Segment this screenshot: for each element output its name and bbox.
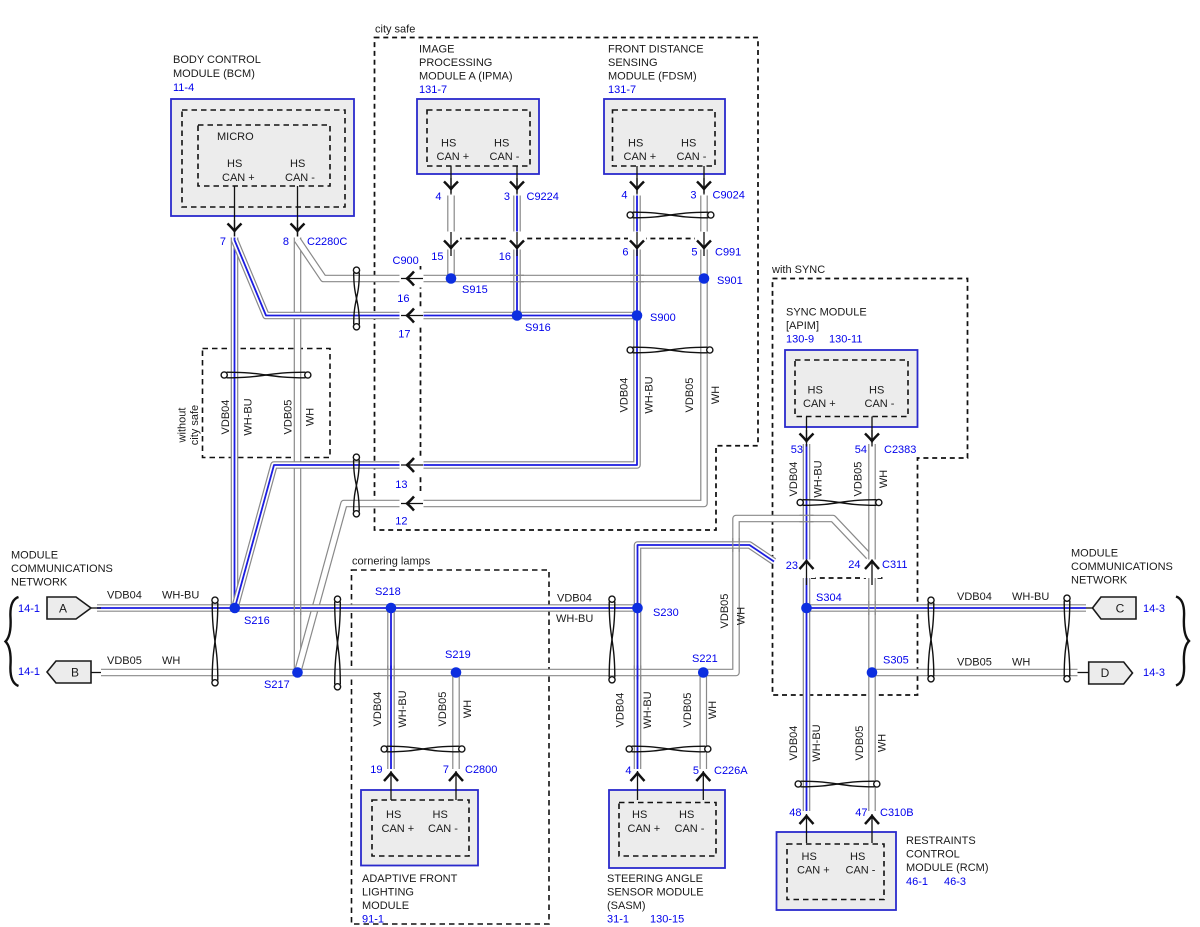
- svg-text:VDB04: VDB04: [957, 591, 992, 603]
- wire FDSM pin4 through S900 and C900-13 to S216: [235, 196, 637, 609]
- module IPMA box: [417, 99, 539, 174]
- splice S230: [632, 603, 643, 614]
- wire B VDB05 WH bus from connector B through S217 S219 S221 to C311-24: [101, 519, 869, 673]
- svg-text:A: A: [59, 602, 67, 616]
- svg-text:13: 13: [395, 479, 407, 491]
- svg-text:VDB05: VDB05: [684, 378, 696, 413]
- twisted pair symbol C900 16/17: [353, 267, 359, 330]
- svg-text:11-4: 11-4: [173, 82, 194, 94]
- svg-text:VDB04: VDB04: [220, 400, 232, 435]
- svg-text:WH-BU: WH-BU: [243, 398, 255, 435]
- svg-text:S230: S230: [653, 607, 679, 619]
- svg-text:B: B: [71, 666, 79, 680]
- without city safe boundary box: [203, 349, 331, 458]
- connector C9224 pin4 arrow: [444, 178, 458, 195]
- with SYNC boundary (dashed): [773, 279, 968, 696]
- svg-text:6: 6: [622, 247, 628, 259]
- connector D stub wire: [1078, 672, 1089, 674]
- wire crossing patch hook horizontal under SYNC pin53 wire: [800, 515, 814, 521]
- wire crossing patch wire16 under IPMA pin3 wire: [510, 275, 524, 281]
- svg-text:VDB05: VDB05: [682, 693, 694, 728]
- svg-text:4: 4: [621, 190, 627, 202]
- svg-text:S218: S218: [375, 586, 401, 598]
- svg-text:SYNC MODULE: SYNC MODULE: [786, 307, 867, 319]
- svg-text:VDB05: VDB05: [719, 594, 731, 629]
- IPMA inner dashed box: [427, 110, 530, 166]
- svg-text:HS: HS: [850, 851, 865, 863]
- twisted pair symbol bus mid: [609, 596, 615, 683]
- connector C2280C pin7 arrow: [228, 220, 242, 237]
- svg-text:CAN -: CAN -: [490, 151, 520, 163]
- twisted pair symbol FDSM pins: [627, 212, 714, 218]
- svg-text:15: 15: [431, 251, 443, 263]
- FDSM inner dashed box: [613, 110, 716, 166]
- svg-text:CAN +: CAN +: [803, 398, 836, 410]
- svg-text:4: 4: [625, 765, 631, 777]
- AFLM inner dashed box: [372, 800, 469, 856]
- svg-text:VDB04: VDB04: [107, 590, 142, 602]
- connector C2800 pin19 arrow: [384, 771, 398, 800]
- SYNC pin53 stem: [806, 417, 808, 444]
- svg-text:14-1: 14-1: [18, 666, 40, 678]
- connector C900 pin13 arrow: [400, 456, 424, 474]
- module RCM box: [777, 832, 897, 910]
- svg-text:BODY CONTROL: BODY CONTROL: [173, 54, 261, 66]
- svg-text:23: 23: [786, 560, 798, 572]
- svg-text:S216: S216: [244, 615, 270, 627]
- splice S218: [386, 603, 397, 614]
- svg-text:12: 12: [395, 516, 407, 528]
- svg-text:C2280C: C2280C: [307, 236, 347, 248]
- svg-text:MODULE: MODULE: [362, 900, 409, 912]
- twisted pair symbol SASM pins: [626, 746, 711, 752]
- connector tag C: [1093, 597, 1137, 619]
- svg-text:HS: HS: [869, 385, 884, 397]
- connector C310B pin48 arrow: [800, 814, 814, 843]
- svg-text:HS: HS: [632, 809, 647, 821]
- svg-text:COMMUNICATIONS: COMMUNICATIONS: [11, 563, 113, 575]
- wire crossing patch wire16 under FDSM pin4 wire: [630, 275, 644, 281]
- RCM inner dashed box: [787, 844, 884, 900]
- twisted pair symbol bus right 1: [928, 597, 934, 682]
- svg-text:CAN -: CAN -: [865, 398, 895, 410]
- twisted pair symbol S900/S901 verticals: [627, 347, 713, 353]
- wire S230 to SASM pin4: [634, 608, 642, 769]
- connector C2280C pin8 arrow: [291, 220, 305, 237]
- svg-text:PROCESSING: PROCESSING: [419, 57, 492, 69]
- svg-text:COMMUNICATIONS: COMMUNICATIONS: [1071, 561, 1173, 573]
- svg-text:C9224: C9224: [527, 191, 559, 203]
- svg-text:14-1: 14-1: [18, 603, 40, 615]
- wire SYNC pin54 through C311-24 and S305 to RCM pin47: [868, 444, 876, 811]
- svg-text:HS: HS: [494, 138, 509, 150]
- svg-text:WH: WH: [877, 734, 889, 752]
- wire BCM pin8 VDB05 WH vertical to S217: [294, 238, 302, 673]
- svg-text:RESTRAINTS: RESTRAINTS: [906, 835, 976, 847]
- twisted pair symbol bus right 2: [1064, 595, 1070, 682]
- svg-text:31-1: 31-1: [607, 914, 629, 926]
- connector C226A pin4 arrow: [631, 771, 645, 800]
- svg-text:S305: S305: [883, 655, 909, 667]
- svg-text:MODULE A (IPMA): MODULE A (IPMA): [419, 71, 513, 83]
- svg-text:53: 53: [791, 444, 803, 456]
- svg-text:S901: S901: [717, 275, 743, 287]
- C311 inline connector boundary (dashed): [811, 577, 886, 579]
- svg-text:SENSING: SENSING: [608, 57, 658, 69]
- connector C9024 pin3 arrow: [697, 178, 711, 195]
- svg-text:VDB05: VDB05: [854, 726, 866, 761]
- svg-text:S915: S915: [462, 284, 488, 296]
- twisted pair symbol RCM pins: [795, 781, 880, 787]
- connector C900 pin16 left arrow: [400, 270, 424, 288]
- twisted pair symbol SYNC pins: [797, 499, 882, 505]
- connector C900 pin15 arrow: [442, 232, 460, 257]
- BCM inner dashed box: [182, 110, 345, 207]
- svg-text:WH-BU: WH-BU: [642, 691, 654, 728]
- svg-text:3: 3: [504, 191, 510, 203]
- svg-text:CAN -: CAN -: [675, 823, 705, 835]
- twisted pair symbol AFLM pins: [381, 746, 465, 752]
- SASM inner dashed box: [619, 803, 716, 857]
- svg-text:14-3: 14-3: [1143, 603, 1165, 615]
- FDSM pin4 stem: [636, 166, 638, 193]
- svg-text:VDB04: VDB04: [372, 692, 384, 727]
- continuation brace left: [6, 597, 19, 686]
- svg-text:CAN -: CAN -: [677, 151, 707, 163]
- connector A stub wire: [91, 607, 101, 609]
- svg-text:C: C: [1116, 602, 1125, 616]
- svg-text:17: 17: [398, 329, 410, 341]
- svg-text:C2800: C2800: [465, 764, 497, 776]
- splice S221: [698, 667, 709, 678]
- svg-text:131-7: 131-7: [608, 84, 636, 96]
- svg-text:city safe: city safe: [375, 24, 415, 36]
- wire BCM pin8 branch to C900-16 and S901: [298, 240, 705, 279]
- twisted pair symbol C900 13/12: [353, 454, 359, 517]
- svg-text:VDB04: VDB04: [788, 726, 800, 761]
- splice S916: [512, 310, 523, 321]
- connector C9024 pin4 arrow: [630, 178, 644, 195]
- svg-text:MODULE (FDSM): MODULE (FDSM): [608, 71, 697, 83]
- svg-text:HS: HS: [386, 809, 401, 821]
- svg-text:131-7: 131-7: [419, 84, 447, 96]
- connector C311 pin23 arrow: [798, 560, 816, 586]
- module AFLM box: [361, 790, 478, 866]
- svg-text:WH-BU: WH-BU: [162, 590, 199, 602]
- svg-text:VDB05: VDB05: [957, 657, 992, 669]
- wire crossing patch SASM wire over bus B: [634, 666, 640, 680]
- connector C9224 pin3 arrow: [510, 178, 524, 195]
- svg-text:S217: S217: [264, 679, 290, 691]
- svg-text:[APIM]: [APIM]: [786, 320, 819, 332]
- svg-text:5: 5: [693, 765, 699, 777]
- svg-text:HS: HS: [433, 809, 448, 821]
- connector C310B pin47 arrow: [865, 814, 879, 843]
- svg-text:7: 7: [443, 764, 449, 776]
- svg-text:CAN -: CAN -: [428, 823, 458, 835]
- connector C311 pin24 arrow: [863, 560, 881, 586]
- module SASM box: [609, 790, 725, 868]
- SYNC pin54 stem: [871, 417, 873, 444]
- svg-text:14-3: 14-3: [1143, 667, 1165, 679]
- svg-text:D: D: [1101, 666, 1110, 680]
- connector tag B: [47, 661, 91, 683]
- wire A VDB04 WH-BU bus from connector A through S216 S218 to S230: [97, 604, 638, 612]
- svg-text:with SYNC: with SYNC: [771, 264, 825, 276]
- svg-text:ADAPTIVE FRONT: ADAPTIVE FRONT: [362, 873, 458, 885]
- wire S230 branch to C311-23: [638, 545, 775, 608]
- svg-text:54: 54: [855, 444, 867, 456]
- svg-text:C226A: C226A: [714, 765, 748, 777]
- svg-text:CAN -: CAN -: [846, 865, 876, 877]
- twisted pair symbol BCM verticals: [221, 372, 311, 378]
- FDSM pin3 stem: [703, 166, 705, 193]
- splice S900: [632, 310, 643, 321]
- SYNC inner dashed box: [795, 360, 908, 417]
- svg-text:VDB04: VDB04: [788, 462, 800, 497]
- city safe harness boundary (dashed): [375, 38, 759, 531]
- connector C900 pin16 arrow: [508, 232, 526, 257]
- svg-text:WH: WH: [305, 408, 317, 426]
- connector tag D: [1089, 662, 1133, 684]
- svg-text:C991: C991: [715, 247, 741, 259]
- continuation brace right: [1176, 597, 1189, 686]
- svg-text:VDB05: VDB05: [853, 462, 865, 497]
- svg-text:HS: HS: [802, 851, 817, 863]
- connector C2383 pin54 arrow: [865, 430, 879, 447]
- BCM pin8 stem: [297, 186, 299, 237]
- wire crossing patch S217-wire over bus A: [294, 601, 300, 615]
- connector C226A pin5 arrow: [696, 771, 710, 800]
- svg-text:(SASM): (SASM): [607, 900, 646, 912]
- svg-text:WH: WH: [707, 701, 719, 719]
- svg-text:IMAGE: IMAGE: [419, 44, 454, 56]
- wire crossing patch S305-wire over bus A right: [869, 601, 875, 615]
- wire BCM pin7 VDB04 WH-BU vertical to S216: [231, 238, 239, 609]
- svg-text:16: 16: [499, 251, 511, 263]
- svg-text:WH: WH: [710, 386, 722, 404]
- wire S218 to AFLM pin19: [387, 608, 395, 769]
- svg-text:MODULE (RCM): MODULE (RCM): [906, 862, 989, 874]
- wire crossing patch AFLM wire over bus B: [388, 666, 394, 680]
- svg-text:WH-BU: WH-BU: [556, 613, 593, 625]
- module BCM box: [171, 99, 354, 216]
- svg-text:HS: HS: [679, 809, 694, 821]
- svg-text:SENSOR MODULE: SENSOR MODULE: [607, 887, 704, 899]
- svg-text:HS: HS: [441, 138, 456, 150]
- IPMA pin3 stem: [516, 166, 518, 193]
- splice S305: [867, 667, 878, 678]
- svg-text:47: 47: [855, 807, 867, 819]
- svg-text:C310B: C310B: [880, 807, 914, 819]
- wire BCM pin7 branch to C900-17 and S900: [235, 240, 638, 316]
- svg-text:CAN +: CAN +: [382, 823, 415, 835]
- wire S221 to SASM pin5: [699, 673, 707, 770]
- svg-text:VDB05: VDB05: [283, 400, 295, 435]
- wire S219 to AFLM pin7: [452, 673, 460, 770]
- svg-text:MODULE: MODULE: [11, 550, 58, 562]
- svg-text:C2383: C2383: [884, 444, 916, 456]
- svg-text:WH: WH: [462, 700, 474, 718]
- twisted pair symbol bus left 1: [212, 597, 218, 686]
- connector C991 pin5 arrow: [695, 232, 713, 257]
- splice S901: [699, 273, 710, 284]
- connector B stub wire: [91, 672, 101, 674]
- svg-text:VDB04: VDB04: [615, 693, 627, 728]
- wire FDSM pin3 through S901 and C900-12 to S217: [298, 196, 705, 673]
- wire B right VDB05 WH from S305 to connector D: [872, 669, 1078, 677]
- splice S216: [230, 603, 241, 614]
- svg-text:without: without: [177, 408, 189, 444]
- svg-text:3: 3: [690, 190, 696, 202]
- svg-text:HS: HS: [808, 385, 823, 397]
- svg-text:91-1: 91-1: [362, 914, 384, 926]
- svg-text:WH: WH: [878, 470, 890, 488]
- wire SYNC pin53 through C311-23 and S304 to RCM pin48: [803, 444, 811, 811]
- svg-text:WH-BU: WH-BU: [1012, 591, 1049, 603]
- svg-text:NETWORK: NETWORK: [11, 577, 68, 589]
- svg-text:19: 19: [370, 764, 382, 776]
- svg-text:CONTROL: CONTROL: [906, 849, 960, 861]
- svg-text:VDB04: VDB04: [619, 378, 631, 413]
- svg-text:8: 8: [283, 236, 289, 248]
- svg-text:HS: HS: [227, 158, 242, 170]
- svg-text:S916: S916: [525, 322, 551, 334]
- svg-text:CAN +: CAN +: [437, 151, 470, 163]
- svg-text:WH-BU: WH-BU: [813, 460, 825, 497]
- svg-text:130-9: 130-9: [786, 334, 814, 346]
- svg-text:WH-BU: WH-BU: [644, 376, 656, 413]
- svg-text:7: 7: [220, 236, 226, 248]
- twisted pair symbol bus left 2: [334, 596, 340, 690]
- BCM pin7 stem: [234, 186, 236, 237]
- IPMA pin4 stem: [450, 166, 452, 193]
- connector C900 pin17 left arrow: [400, 307, 424, 325]
- svg-text:LIGHTING: LIGHTING: [362, 887, 414, 899]
- connector C2383 pin53 arrow: [800, 430, 814, 447]
- svg-text:WH-BU: WH-BU: [397, 690, 409, 727]
- svg-text:city safe: city safe: [189, 405, 201, 445]
- svg-text:S221: S221: [692, 653, 718, 665]
- svg-text:46-1: 46-1: [906, 876, 928, 888]
- connector C stub wire: [1086, 607, 1093, 609]
- svg-text:CAN +: CAN +: [797, 865, 830, 877]
- svg-text:MODULE (BCM): MODULE (BCM): [173, 68, 255, 80]
- svg-text:C9024: C9024: [713, 190, 745, 202]
- svg-text:HS: HS: [681, 138, 696, 150]
- wire crossing patch hook vertical over S230 branch: [733, 538, 739, 552]
- svg-text:S900: S900: [650, 312, 676, 324]
- splice S217: [292, 667, 303, 678]
- splice S219: [451, 667, 462, 678]
- svg-text:VDB05: VDB05: [107, 655, 142, 667]
- svg-text:WH: WH: [162, 655, 180, 667]
- svg-text:MICRO: MICRO: [217, 131, 254, 143]
- svg-text:130-11: 130-11: [829, 334, 862, 346]
- svg-text:S219: S219: [445, 649, 471, 661]
- svg-text:CAN +: CAN +: [222, 172, 255, 184]
- svg-text:48: 48: [789, 807, 801, 819]
- module SYNC APIM box: [785, 350, 918, 427]
- connector tag A: [47, 597, 91, 619]
- svg-text:CAN +: CAN +: [628, 823, 661, 835]
- svg-text:WH: WH: [1012, 657, 1030, 669]
- connector C991 pin6 arrow: [628, 232, 646, 257]
- svg-text:CAN +: CAN +: [624, 151, 657, 163]
- svg-text:FRONT DISTANCE: FRONT DISTANCE: [608, 44, 704, 56]
- svg-text:C311: C311: [882, 559, 907, 571]
- wire IPMA pin3 to S916: [513, 196, 521, 316]
- BCM MICRO dashed box: [198, 125, 330, 186]
- svg-text:S304: S304: [816, 592, 842, 604]
- C900 inline connector boundary (dashed): [448, 238, 711, 240]
- svg-text:HS: HS: [290, 158, 305, 170]
- svg-text:VDB04: VDB04: [557, 593, 592, 605]
- connector C2800 pin7 arrow: [449, 771, 463, 800]
- cornering lamps boundary box: [352, 570, 550, 924]
- splice S304: [801, 603, 812, 614]
- svg-text:WH-BU: WH-BU: [811, 724, 823, 761]
- connector C900 pin12 arrow: [400, 495, 424, 513]
- svg-text:16: 16: [397, 293, 409, 305]
- svg-text:VDB05: VDB05: [437, 692, 449, 727]
- svg-text:5: 5: [691, 247, 697, 259]
- wire IPMA pin4 to S915: [447, 196, 455, 279]
- svg-text:WH: WH: [736, 607, 748, 625]
- svg-text:46-3: 46-3: [944, 876, 966, 888]
- module FDSM box: [604, 99, 725, 174]
- splice S915: [446, 273, 457, 284]
- svg-text:MODULE: MODULE: [1071, 548, 1118, 560]
- svg-text:C900: C900: [393, 255, 419, 267]
- wire A right VDB04 WH-BU from S304 to connector C: [807, 604, 1087, 612]
- svg-text:CAN -: CAN -: [285, 172, 315, 184]
- svg-text:4: 4: [435, 191, 441, 203]
- svg-text:130-15: 130-15: [650, 914, 684, 926]
- svg-text:NETWORK: NETWORK: [1071, 575, 1128, 587]
- svg-text:STEERING ANGLE: STEERING ANGLE: [607, 873, 703, 885]
- svg-text:24: 24: [848, 559, 860, 571]
- svg-text:HS: HS: [628, 138, 643, 150]
- svg-text:cornering lamps: cornering lamps: [352, 556, 431, 568]
